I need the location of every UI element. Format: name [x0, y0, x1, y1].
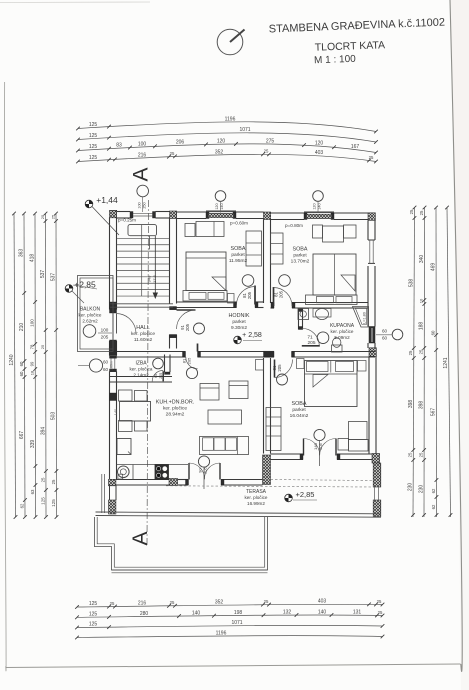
terrace west parapet: [101, 474, 103, 513]
svg-text:10: 10: [419, 298, 424, 303]
svg-text:100: 100: [138, 202, 142, 208]
kitchen fridge: [117, 439, 131, 455]
svg-text:394: 394: [40, 427, 46, 436]
svg-text:25: 25: [264, 599, 269, 604]
marker soba1 window: [215, 191, 226, 213]
dim row top 1 (1196): [76, 116, 378, 133]
svg-text:25: 25: [170, 600, 175, 605]
svg-text:280: 280: [140, 611, 149, 617]
svg-text:125: 125: [51, 499, 56, 507]
kitchen sink: [118, 466, 130, 479]
svg-text:25: 25: [419, 349, 424, 354]
svg-text:M 1 : 100: M 1 : 100: [314, 54, 356, 66]
svg-text:125: 125: [89, 144, 98, 150]
svg-text:ker. pločica: ker. pločica: [130, 367, 153, 372]
svg-text:205: 205: [187, 357, 192, 364]
svg-text:120: 120: [315, 140, 324, 146]
svg-text:205: 205: [277, 364, 282, 372]
wall stair/soba1 vertical: [169, 218, 171, 304]
page left edge: [4, 82, 6, 671]
balcony outline: [78, 276, 114, 352]
svg-text:p=0.60m: p=0.60m: [230, 221, 248, 226]
soba2 wardrobe: [271, 233, 284, 264]
door kupaona (71/205): [302, 328, 329, 346]
hatch terrace east wall lower: [373, 500, 381, 517]
wall hodnik south: [165, 352, 264, 358]
marker soba2 window: [313, 191, 324, 213]
svg-text:62: 62: [19, 503, 24, 508]
living sofa: [200, 437, 249, 455]
svg-text:230: 230: [408, 483, 414, 492]
svg-text:25: 25: [40, 214, 45, 219]
staircase direction arrow: [153, 236, 158, 299]
kupaona wc: [332, 338, 343, 352]
kitchen counter: [117, 465, 189, 480]
svg-text:60: 60: [431, 330, 436, 335]
svg-text:25: 25: [264, 149, 269, 154]
svg-text:1196: 1196: [225, 116, 236, 122]
svg-text:398: 398: [419, 401, 425, 410]
svg-text:216: 216: [138, 601, 147, 607]
svg-text:L=1.80: L=1.80: [363, 312, 367, 324]
svg-text:KUH.+DN.BOR.: KUH.+DN.BOR.: [156, 400, 195, 406]
svg-text:25: 25: [419, 210, 424, 215]
elevation +2,85 terrace: [285, 490, 317, 502]
soba3 bed: [305, 361, 358, 407]
svg-text:+1,44: +1,44: [96, 195, 118, 205]
svg-text:418: 418: [29, 254, 35, 263]
svg-text:13.70m2: 13.70m2: [291, 259, 310, 265]
svg-text:11.95m2: 11.95m2: [229, 258, 248, 264]
svg-text:parket: parket: [292, 407, 306, 413]
staircase treads: [117, 225, 170, 296]
svg-text:205: 205: [318, 442, 323, 449]
bathroom east window (dark bar): [369, 327, 375, 344]
svg-text:1.60m: 1.60m: [110, 361, 114, 370]
svg-text:60: 60: [382, 329, 388, 334]
dim col left 1 (1240): [9, 212, 17, 519]
svg-text:125: 125: [89, 155, 98, 161]
svg-text:100: 100: [30, 319, 35, 327]
svg-text:60: 60: [382, 336, 388, 341]
svg-text:132: 132: [283, 609, 292, 615]
svg-text:25: 25: [110, 601, 115, 606]
svg-text:205: 205: [307, 340, 315, 346]
svg-text:469: 469: [430, 263, 436, 272]
svg-text:1.60: 1.60: [114, 409, 118, 415]
svg-text:205: 205: [101, 335, 109, 340]
svg-text:16.99m2: 16.99m2: [247, 501, 265, 506]
dim row top 4 (216/352/403): [76, 149, 378, 164]
svg-text:p=0.80m: p=0.80m: [285, 223, 303, 228]
french door kitchen-terrace (90/205): [189, 456, 220, 489]
svg-text:62: 62: [431, 488, 436, 493]
svg-text:60: 60: [19, 361, 24, 366]
soba2 table and chairs: [313, 225, 357, 242]
soba3 nightstands: [297, 359, 367, 372]
svg-text:25: 25: [408, 350, 413, 355]
svg-text:352: 352: [215, 600, 224, 606]
svg-text:25: 25: [170, 151, 175, 156]
living coffee table: [208, 410, 242, 424]
soba2 bed: [306, 254, 358, 305]
dim row top 3 (segments): [76, 138, 378, 154]
svg-text:parket: parket: [232, 319, 246, 325]
page top edge hint: [0, 1, 150, 4]
door balcony (100/205): [83, 314, 136, 340]
staircase railing top: [128, 225, 157, 236]
elevation +2,58 hodnik: [234, 332, 262, 344]
svg-text:167: 167: [351, 144, 360, 150]
svg-text:parket: parket: [293, 253, 307, 259]
scanner area tint beyond right page edge: [450, 0, 469, 400]
svg-text:25: 25: [409, 209, 414, 214]
svg-text:100: 100: [138, 141, 147, 147]
svg-text:SOBA: SOBA: [231, 246, 246, 252]
door soba2 (81/205): [274, 275, 293, 306]
svg-text:p=0.25m: p=0.25m: [118, 217, 136, 222]
svg-text:25: 25: [50, 214, 55, 219]
svg-text:9.30m2: 9.30m2: [231, 325, 247, 331]
svg-text:205: 205: [247, 291, 252, 299]
svg-text:TLOCRT KATA: TLOCRT KATA: [315, 39, 386, 53]
soba3 desk and chair: [338, 422, 368, 452]
svg-text:ker. pločice: ker. pločice: [331, 329, 354, 334]
wall izba east: [164, 355, 166, 373]
svg-text:339: 339: [30, 440, 36, 449]
svg-text:11.60m2: 11.60m2: [134, 337, 153, 343]
dim col right 1: [408, 206, 417, 517]
page bottom edge: [6, 664, 461, 668]
dim col left 4: [40, 212, 48, 519]
svg-text:60: 60: [103, 360, 109, 365]
svg-text:99: 99: [30, 361, 35, 366]
ground floor outline below: [94, 517, 267, 573]
wall soba3 west: [263, 358, 265, 454]
soba1 window: [206, 211, 236, 218]
svg-text:398: 398: [408, 400, 414, 409]
hatch soba3 SE corner: [372, 454, 380, 464]
svg-text:83: 83: [116, 143, 122, 149]
elevation +2,85 balcony: [65, 280, 97, 304]
kupaona washbasin: [313, 309, 331, 320]
wall izba north: [117, 351, 165, 353]
door soba3 from hodnik (81/205): [272, 360, 292, 386]
wall kupaona south / soba3 north: [264, 352, 376, 358]
svg-text:667: 667: [19, 431, 25, 440]
svg-text:SOBA: SOBA: [293, 247, 308, 253]
svg-text:1241: 1241: [443, 357, 449, 368]
svg-text:140: 140: [318, 609, 327, 615]
wall izba south: [110, 376, 173, 378]
french door soba3-terrace (140/205): [304, 429, 337, 466]
soba2 east window: [368, 240, 375, 263]
svg-text:188: 188: [419, 322, 425, 331]
svg-text:403: 403: [315, 150, 324, 156]
dim row bottom 1: [75, 599, 384, 609]
section marker A top: [130, 167, 153, 196]
west wall jambs at balcony door: [110, 302, 117, 313]
dim col left 3: [29, 212, 37, 519]
svg-text:503: 503: [51, 412, 57, 421]
door hall-hodnik (91/205): [177, 310, 205, 334]
svg-text:25: 25: [369, 155, 374, 160]
svg-text:18: 18: [30, 370, 35, 375]
svg-text:A: A: [130, 167, 153, 181]
dim row bottom 3 (1071): [75, 620, 384, 629]
hatch terrace door west jamb: [169, 479, 178, 486]
svg-text:216: 216: [138, 152, 147, 158]
svg-text:125: 125: [89, 133, 98, 139]
svg-text:HALL: HALL: [136, 325, 150, 331]
svg-text:205: 205: [203, 466, 208, 473]
door soba1 (81/205): [237, 275, 256, 305]
door living room (81/205): [182, 344, 198, 379]
svg-text:120: 120: [313, 203, 317, 209]
svg-text:63: 63: [30, 489, 35, 494]
svg-text:120: 120: [217, 139, 226, 145]
dim col right 3: [430, 206, 438, 517]
dim col right 4 (1241): [443, 206, 452, 517]
svg-text:1240: 1240: [9, 354, 15, 365]
svg-text:1196: 1196: [216, 630, 227, 636]
west wall continuation to terrace: [109, 485, 111, 500]
living corner cabinet: [256, 360, 264, 371]
svg-text:78: 78: [30, 344, 35, 349]
svg-text:ker. pločice: ker. pločice: [163, 406, 187, 412]
roof overhang dashed lines over terrace: [266, 480, 372, 481]
svg-text:1071: 1071: [239, 127, 250, 133]
svg-text:25: 25: [40, 344, 45, 349]
svg-text:198: 198: [234, 610, 243, 616]
svg-text:100: 100: [101, 328, 109, 333]
svg-text:HODNIK: HODNIK: [229, 313, 250, 319]
hatch bathroom SE corner: [369, 348, 376, 357]
svg-text:2.62m2: 2.62m2: [82, 319, 98, 324]
svg-text:537: 537: [40, 270, 46, 279]
svg-text:25: 25: [377, 599, 382, 604]
hatch NW corner: [110, 210, 117, 218]
svg-text:206: 206: [176, 140, 185, 146]
svg-text:140: 140: [192, 610, 201, 616]
svg-text:+2,85: +2,85: [296, 490, 315, 499]
dim row bottom 2: [75, 609, 384, 619]
dim row bottom 4 (1196): [75, 630, 384, 639]
svg-text:2.14m2: 2.14m2: [133, 373, 149, 378]
svg-text:538: 538: [409, 279, 415, 288]
svg-text:60: 60: [19, 371, 24, 376]
kupaona washing machine: [298, 309, 309, 320]
svg-text:205: 205: [159, 373, 163, 379]
hatch terrace east wall upper: [373, 463, 381, 487]
marker izba window 60/60: [78, 359, 108, 372]
svg-text:567: 567: [431, 408, 437, 417]
dim col left 5: [50, 212, 58, 519]
wall kitchen south: [116, 480, 263, 486]
marker bathroom window 60/60: [376, 329, 403, 341]
wall soba1/soba2 vertical: [263, 220, 265, 304]
exterior wall left (west): [110, 218, 117, 480]
svg-text:125: 125: [40, 497, 45, 505]
door izba (65/205): [152, 358, 170, 381]
svg-text:parket: parket: [231, 252, 245, 258]
svg-text:1071: 1071: [231, 620, 242, 626]
soba1 bed: [183, 252, 227, 301]
svg-text:125: 125: [89, 612, 98, 618]
page right edge: [450, 0, 462, 671]
wall hodnik north (under bedrooms) with two door openings: [177, 302, 369, 308]
wall soba3 south with balcony door opening: [271, 454, 373, 460]
terrace south parapet: [96, 512, 382, 517]
soba1 nightstand: [228, 294, 235, 304]
svg-text:125: 125: [89, 622, 98, 628]
svg-text:60: 60: [103, 367, 109, 372]
svg-text:230: 230: [418, 485, 424, 494]
west wall izba window: [110, 356, 117, 372]
svg-text:ker. pločice: ker. pločice: [245, 495, 268, 500]
svg-text:352: 352: [215, 149, 224, 155]
dim col left 2: [19, 212, 27, 519]
svg-text:340: 340: [419, 255, 425, 264]
svg-text:25: 25: [378, 610, 383, 615]
hatch kitchen SW corner: [109, 479, 116, 486]
wall hall/hodnik with door opening: [170, 307, 177, 349]
svg-text:ker. pločice: ker. pločice: [79, 313, 102, 318]
exterior wall top (north): [117, 212, 369, 220]
svg-text:65: 65: [154, 374, 158, 378]
svg-text:ker. pločice: ker. pločice: [131, 331, 155, 337]
dining table: [119, 390, 151, 432]
svg-text:275: 275: [266, 138, 275, 144]
svg-text:205: 205: [185, 323, 190, 331]
svg-text:25: 25: [408, 452, 413, 457]
exterior wall right (east): [368, 221, 376, 454]
kupaona bathtub: [353, 307, 369, 328]
hatch soba3 SW wall stub: [263, 455, 271, 485]
svg-text:363: 363: [19, 249, 25, 258]
svg-text:131: 131: [353, 610, 362, 616]
svg-text:16.04m2: 16.04m2: [290, 413, 309, 419]
svg-text:210: 210: [19, 323, 25, 332]
svg-text:28.94m2: 28.94m2: [166, 412, 185, 418]
soba2 window: [304, 212, 334, 219]
svg-text:205: 205: [279, 290, 284, 298]
marker stair window: [138, 197, 147, 212]
hatch NE corner: [368, 213, 375, 221]
north symbol: [217, 29, 244, 55]
svg-text:62: 62: [431, 504, 436, 509]
section line A-A: [147, 200, 149, 546]
svg-text:403: 403: [318, 599, 327, 605]
svg-text:A: A: [129, 531, 152, 545]
soba1 wardrobe: [246, 231, 262, 266]
kitchen stove: [155, 465, 169, 480]
hatch terrace west wall end: [109, 500, 116, 514]
svg-text:120: 120: [215, 203, 219, 209]
living armchairs: [200, 381, 248, 400]
elevation +1,44: [85, 195, 119, 235]
svg-text:537: 537: [51, 273, 57, 282]
soba3 wardrobe: [266, 408, 281, 451]
svg-text:71: 71: [307, 335, 313, 341]
wall kupaona west with door opening: [299, 309, 303, 330]
west wall pier jamb at kitchen: [110, 393, 117, 401]
svg-text:25: 25: [51, 479, 56, 484]
terrace east wall window: [375, 487, 379, 500]
svg-text:125: 125: [89, 601, 98, 607]
dim row top 2 (1071): [76, 127, 378, 144]
hatch stair/soba1 wall top: [170, 211, 177, 219]
balcony door opening leaf: [112, 313, 114, 338]
soba1 desk and chair: [185, 222, 224, 237]
hatch soba1/soba2 wall top: [264, 212, 271, 220]
svg-text:25: 25: [40, 477, 45, 482]
stair landing edge / hall boundary: [110, 303, 173, 305]
svg-text:25: 25: [419, 452, 424, 457]
svg-text:17.5: 17.5: [152, 274, 157, 283]
dim col right 2: [418, 206, 426, 517]
svg-text:125: 125: [89, 122, 98, 128]
stair window: [130, 212, 156, 219]
svg-text:+ 2,58: + 2,58: [242, 332, 262, 339]
